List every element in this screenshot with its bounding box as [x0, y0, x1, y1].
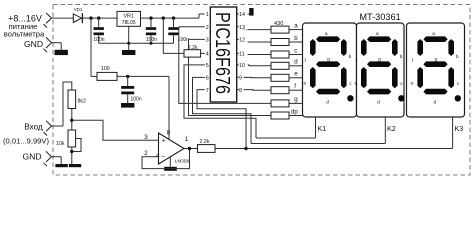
svg-text:вольтметра: вольтметра	[4, 30, 45, 39]
svg-text:8k2: 8k2	[78, 99, 86, 105]
svg-text:GND: GND	[22, 152, 41, 162]
svg-text:K3: K3	[455, 124, 464, 133]
svg-text:c: c	[294, 47, 297, 54]
svg-text:3: 3	[144, 134, 148, 141]
svg-text:2: 2	[144, 150, 148, 157]
svg-text:+: +	[162, 138, 166, 145]
svg-text:5: 5	[206, 63, 209, 69]
svg-text:3: 3	[206, 38, 209, 44]
svg-text:dp: dp	[291, 108, 298, 115]
svg-text:GND: GND	[24, 39, 43, 49]
svg-text:13: 13	[239, 25, 245, 31]
svg-text:–: –	[161, 154, 165, 161]
svg-text:VR1: VR1	[123, 14, 134, 20]
svg-text:100n: 100n	[93, 37, 104, 43]
svg-text:100n: 100n	[146, 37, 157, 43]
svg-text:PIC16F676: PIC16F676	[211, 12, 233, 94]
svg-text:11: 11	[239, 52, 245, 58]
svg-text:10: 10	[239, 63, 245, 69]
svg-text:100n: 100n	[131, 97, 142, 103]
svg-text:12: 12	[239, 38, 245, 44]
svg-text:14: 14	[239, 12, 245, 18]
svg-text:d: d	[294, 59, 297, 66]
svg-text:2: 2	[206, 25, 209, 31]
svg-text:1: 1	[206, 12, 209, 18]
svg-text:e: e	[294, 71, 298, 78]
svg-text:MT-30361: MT-30361	[359, 12, 400, 22]
svg-text:LM358: LM358	[175, 158, 190, 163]
svg-text:2.2k: 2.2k	[200, 139, 210, 145]
svg-text:4: 4	[206, 52, 209, 58]
svg-text:100: 100	[101, 66, 110, 72]
svg-text:VD1: VD1	[74, 7, 83, 12]
svg-text:9: 9	[239, 76, 242, 82]
svg-text:K2: K2	[387, 124, 396, 133]
svg-text:b: b	[294, 35, 298, 42]
svg-text:K1: K1	[318, 124, 327, 133]
svg-text:a: a	[294, 22, 298, 29]
svg-text:f: f	[294, 83, 296, 90]
svg-text:78L05: 78L05	[122, 20, 136, 26]
svg-text:100n: 100n	[178, 37, 189, 43]
svg-text:4: 4	[156, 152, 160, 159]
svg-text:8: 8	[167, 129, 171, 136]
svg-text:1: 1	[185, 136, 189, 143]
svg-text:2.2k: 2.2k	[188, 45, 198, 51]
svg-text:g: g	[294, 96, 297, 103]
svg-text:Вход: Вход	[24, 123, 43, 132]
svg-text:8: 8	[239, 88, 242, 94]
svg-text:6: 6	[206, 76, 209, 82]
svg-text:10k: 10k	[56, 141, 65, 147]
svg-text:(0,01...9,99V): (0,01...9,99V)	[3, 137, 49, 146]
svg-text:7: 7	[206, 88, 209, 94]
